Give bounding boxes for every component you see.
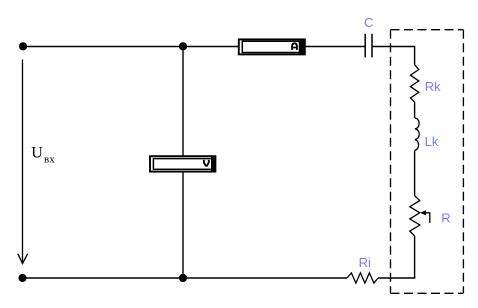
wire Lk to R <box>414 150 416 195</box>
svg-text:U: U <box>31 145 43 162</box>
wire bottom from left node to Ri <box>23 277 348 279</box>
capacitor C plates <box>365 34 372 58</box>
wire R to bottom corner <box>414 236 416 278</box>
node bottom-left <box>18 274 26 282</box>
dashed box (coil equivalent circuit) <box>391 30 464 294</box>
wire ammeter to capacitor <box>305 46 365 48</box>
wire capacitor to right branch corner <box>372 47 414 65</box>
ammeter U1 box <box>239 39 305 55</box>
voltmeter letter V <box>204 160 209 166</box>
node bottom-middle junction <box>179 274 187 282</box>
input voltage arrow U_vx <box>18 60 28 264</box>
resistor Rk zigzag <box>410 65 418 102</box>
potentiometer R wiper arrow <box>420 210 430 223</box>
svg-text:Rk: Rk <box>425 79 441 94</box>
resistor Ri zigzag <box>347 273 378 283</box>
wire top from left node to ammeter <box>23 46 239 48</box>
svg-text:Lk: Lk <box>425 134 439 149</box>
ammeter letter A <box>292 43 297 50</box>
svg-text:Ri: Ri <box>359 255 371 270</box>
wire Rk to Lk <box>414 102 416 118</box>
wire Ri to right branch <box>378 277 415 279</box>
wire voltmeter branch lower <box>182 172 184 274</box>
svg-text:C: C <box>364 15 373 30</box>
node top-middle junction <box>179 42 187 50</box>
voltmeter U2 box <box>150 155 216 172</box>
inductor Lk <box>415 118 419 150</box>
svg-text:R: R <box>441 211 450 226</box>
wire voltmeter branch upper <box>182 50 184 156</box>
node top-left <box>19 42 27 50</box>
potentiometer R zigzag <box>410 196 420 236</box>
svg-text:вх: вх <box>44 153 55 165</box>
